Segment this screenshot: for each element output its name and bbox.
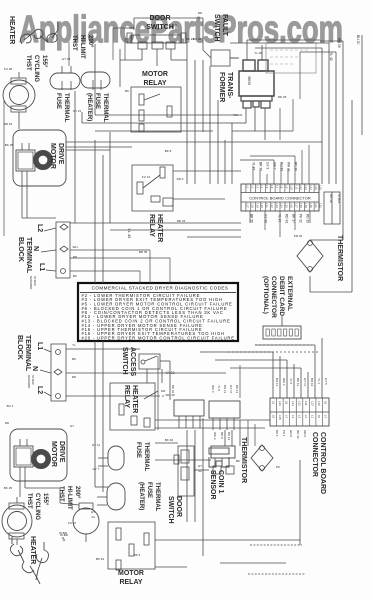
svg-text:THERMAL: THERMAL (143, 442, 149, 472)
wire (187, 236, 241, 238)
svg-text:L23: L23 (275, 203, 279, 208)
wire (328, 43, 330, 184)
wire (292, 99, 294, 131)
wire (155, 566, 187, 568)
svg-text:MOTOR: MOTOR (118, 570, 144, 577)
svg-text:(HEATER): (HEATER) (86, 93, 92, 121)
wire (194, 430, 196, 522)
svg-text:GY: GY (198, 464, 202, 468)
svg-text:YL: YL (72, 343, 76, 347)
svg-text:W-BR: W-BR (60, 533, 69, 537)
svg-text:200°: 200° (87, 35, 93, 48)
wire (231, 123, 233, 184)
wire (94, 44, 96, 115)
coin 1 sensor (lower) (209, 448, 229, 454)
wire (22, 217, 56, 219)
svg-text:L3: L3 (298, 415, 302, 419)
wire (247, 420, 249, 446)
svg-text:L1: L1 (38, 263, 45, 271)
svg-text:BK: BK (72, 357, 76, 361)
svg-text:CONNECTOR: CONNECTOR (311, 432, 318, 477)
svg-text:GR 8: GR 8 (289, 430, 293, 437)
wire (279, 211, 281, 237)
svg-text:GY 17: GY 17 (303, 378, 307, 387)
svg-text:WH 4: WH 4 (282, 378, 286, 386)
svg-text:L2: L2 (304, 415, 308, 419)
wire (3, 112, 5, 236)
door switch (lower) (178, 446, 194, 496)
svg-text:WH: WH (73, 245, 78, 249)
wire (94, 341, 96, 487)
thermal fuse heater (lower) (107, 483, 125, 510)
svg-text:RD 42: RD 42 (296, 430, 300, 439)
wire (169, 361, 171, 400)
svg-text:BK 40: BK 40 (165, 438, 174, 442)
svg-text:GY 3: GY 3 (266, 162, 270, 169)
svg-text:BU 30: BU 30 (356, 35, 360, 45)
wire (308, 145, 310, 184)
svg-text:SWITCH: SWITCH (146, 24, 174, 31)
svg-text:BK 10: BK 10 (171, 385, 175, 394)
svg-text:BK 13: BK 13 (235, 385, 239, 394)
svg-text:BK 1: BK 1 (275, 430, 279, 437)
wire (66, 348, 140, 350)
svg-text:L13: L13 (311, 401, 315, 406)
svg-text:GY 33: GY 33 (62, 57, 71, 61)
svg-text:HI-LIMIT: HI-LIMIT (66, 486, 72, 510)
svg-text:L5: L5 (272, 415, 276, 419)
wire (95, 114, 239, 116)
svg-text:L18: L18 (250, 203, 254, 208)
svg-text:SWITCH: SWITCH (213, 14, 220, 42)
svg-text:L12: L12 (299, 185, 303, 190)
svg-text:DOOR: DOOR (175, 496, 182, 517)
svg-text:L25: L25 (285, 203, 289, 208)
wire (300, 368, 302, 398)
svg-text:THST: THST (58, 486, 64, 502)
svg-text:YL 49: YL 49 (278, 214, 282, 222)
svg-text:11: 11 (62, 538, 65, 542)
svg-text:DRIVE: DRIVE (58, 441, 65, 463)
svg-text:L10: L10 (289, 185, 293, 190)
svg-text:BLOCK: BLOCK (16, 335, 23, 360)
svg-text:BU 30: BU 30 (193, 37, 202, 41)
wire (310, 239, 343, 241)
svg-text:BR 23: BR 23 (4, 122, 13, 126)
svg-text:CYCLING: CYCLING (33, 55, 39, 82)
wire (169, 258, 171, 283)
wire (351, 100, 353, 292)
svg-text:RD 39: RD 39 (337, 38, 341, 48)
svg-text:L8: L8 (280, 185, 284, 188)
wire (155, 442, 178, 444)
svg-text:WH 41: WH 41 (287, 162, 291, 172)
connector box A (lower) (174, 400, 204, 416)
wire (149, 250, 151, 283)
wire (59, 488, 61, 503)
svg-text:L2: L2 (36, 386, 43, 394)
svg-text:L16: L16 (319, 185, 323, 190)
wire (239, 365, 241, 398)
svg-text:COIN 1: COIN 1 (217, 470, 224, 493)
svg-text:WH 4: WH 4 (211, 385, 215, 393)
svg-text:L28: L28 (299, 203, 303, 208)
wire (155, 427, 265, 429)
wire (220, 562, 286, 564)
wire (252, 166, 254, 184)
wire (139, 271, 141, 283)
wire (19, 481, 21, 497)
wire (200, 351, 273, 353)
wire (245, 108, 247, 123)
wire (230, 122, 246, 124)
svg-text:L5: L5 (265, 185, 269, 188)
svg-text:L0: L0 (317, 415, 321, 419)
svg-text:L1: L1 (246, 185, 250, 188)
svg-text:L12: L12 (298, 401, 302, 406)
wire (21, 186, 23, 218)
svg-text:RD 45: RD 45 (278, 95, 287, 99)
svg-text:THERMAL: THERMAL (102, 93, 108, 123)
svg-text:RELAY: RELAY (148, 214, 155, 237)
svg-text:L21: L21 (265, 203, 269, 208)
wire (272, 352, 274, 398)
wire (95, 486, 108, 488)
wire (230, 42, 329, 44)
svg-text:FORMER: FORMER (218, 72, 225, 102)
svg-text:FUSE: FUSE (55, 93, 61, 109)
wire (255, 344, 312, 346)
svg-text:L31: L31 (314, 203, 318, 208)
thermistor (lower) (251, 445, 273, 471)
connector box C (lower) (211, 446, 235, 458)
wire (230, 57, 239, 59)
control board connector (lower) (270, 398, 329, 426)
heater relay (upper) (132, 165, 173, 211)
svg-text:L6: L6 (270, 185, 274, 188)
svg-text:THERMAL: THERMAL (63, 93, 69, 123)
diagnostic codes box (78, 283, 238, 341)
wire (186, 42, 188, 184)
wire (261, 45, 263, 60)
wire (294, 156, 296, 184)
svg-text:GY 5: GY 5 (324, 378, 328, 385)
wire (155, 419, 270, 421)
wire (70, 270, 140, 272)
wire (255, 47, 322, 49)
svg-text:STRAP: STRAP (31, 375, 35, 385)
svg-text:L1: L1 (311, 415, 315, 419)
wire (70, 257, 170, 259)
svg-text:BK 13: BK 13 (296, 378, 300, 387)
svg-text:THERMISTOR: THERMISTOR (336, 235, 343, 281)
wire (279, 108, 281, 140)
svg-text:BLOCK: BLOCK (17, 237, 24, 262)
wire (300, 51, 336, 53)
svg-text:BU 2: BU 2 (7, 404, 14, 408)
drive motor (upper) (13, 130, 66, 186)
svg-text:FU 13: FU 13 (142, 175, 151, 179)
svg-text:L9: L9 (285, 185, 289, 188)
wire (209, 66, 211, 184)
wire (66, 149, 110, 151)
svg-text:(OPTIONAL): (OPTIONAL) (262, 276, 269, 314)
svg-text:L3: L3 (255, 185, 259, 188)
wire (202, 540, 204, 556)
svg-text:36528: 36528 (247, 76, 251, 85)
connector box B (lower) (209, 401, 240, 418)
svg-text:GR 7: GR 7 (273, 162, 277, 170)
svg-text:THST: THST (26, 493, 32, 509)
svg-text:FUSE: FUSE (135, 442, 141, 458)
svg-text:ACCESS: ACCESS (129, 347, 136, 377)
wire (155, 539, 300, 541)
svg-text:SWITCH: SWITCH (121, 347, 128, 375)
svg-text:N: N (31, 366, 38, 371)
svg-text:L9: L9 (324, 401, 328, 405)
svg-text:HEATER: HEATER (156, 214, 163, 242)
svg-text:RD 39: RD 39 (329, 194, 333, 203)
wire (94, 140, 96, 283)
wire (249, 211, 251, 223)
svg-text:CONTROL BOARD CONNECTOR: CONTROL BOARD CONNECTOR (249, 196, 311, 201)
wire (66, 146, 132, 148)
wire (259, 170, 261, 184)
svg-text:DOOR: DOOR (150, 15, 171, 22)
wire (310, 291, 352, 293)
svg-text:FUSE: FUSE (146, 482, 152, 498)
wire (173, 198, 225, 200)
wire (74, 91, 76, 223)
svg-text:L7: L7 (324, 415, 328, 419)
svg-text:L27: L27 (294, 203, 298, 208)
svg-text:L7: L7 (275, 185, 279, 188)
svg-text:GY 7: GY 7 (93, 467, 100, 471)
svg-text:THST: THST (25, 55, 31, 71)
wire (202, 60, 204, 132)
wire (146, 369, 148, 383)
svg-text:GY: GY (70, 424, 74, 428)
svg-text:L14: L14 (291, 401, 295, 406)
svg-text:FAULT: FAULT (221, 14, 228, 37)
svg-text:THERMAL: THERMAL (154, 482, 160, 512)
svg-text:GY 21: GY 21 (73, 109, 82, 113)
thermal fuse (lower) (108, 446, 124, 470)
wire (70, 222, 241, 224)
wire (231, 430, 233, 446)
svg-text:L20: L20 (260, 203, 264, 208)
wire (264, 108, 266, 140)
svg-text:L13: L13 (304, 185, 308, 190)
svg-text:BU 11: BU 11 (275, 378, 279, 386)
svg-text:L4: L4 (291, 415, 295, 419)
wire (70, 249, 150, 251)
thermal fuse heater (upper) (81, 72, 110, 88)
wire (155, 459, 211, 461)
svg-text:YL 5: YL 5 (289, 378, 293, 384)
svg-text:L22: L22 (270, 203, 274, 208)
control board connector (upper) (241, 184, 319, 211)
svg-text:BK 25: BK 25 (4, 486, 13, 490)
svg-text:L26: L26 (289, 203, 293, 208)
wire (194, 60, 196, 184)
svg-text:TERMINAL: TERMINAL (24, 335, 31, 372)
wire (247, 39, 320, 41)
wire (24, 481, 26, 488)
wire (246, 40, 248, 60)
wire (273, 160, 275, 184)
svg-text:L2: L2 (250, 185, 254, 188)
wire (66, 395, 160, 397)
wire (281, 316, 283, 326)
wire (250, 155, 295, 157)
svg-text:BR 36: BR 36 (259, 162, 263, 171)
svg-text:GY 36: GY 36 (264, 214, 268, 223)
wire (224, 430, 226, 446)
svg-text:YL 45: YL 45 (252, 162, 256, 170)
wire (186, 430, 188, 522)
svg-text:PK: PK (276, 465, 280, 469)
svg-text:HEATER: HEATER (29, 536, 36, 564)
cycling thermostat 155 (upper) (3, 80, 35, 110)
svg-text:RD 39: RD 39 (306, 214, 310, 223)
wire (157, 356, 159, 430)
heater (upper) coils (20, 29, 48, 44)
svg-text:FU 28: FU 28 (4, 67, 13, 71)
cycling thermostat 155 (lower) (2, 505, 32, 537)
svg-text:L24: L24 (280, 203, 284, 208)
svg-text:BK 8: BK 8 (165, 149, 172, 153)
svg-text:RD 42: RD 42 (177, 219, 186, 223)
svg-text:WH 2: WH 2 (213, 432, 217, 440)
svg-text:BK 6: BK 6 (134, 553, 141, 557)
svg-text:MOTOR: MOTOR (142, 71, 168, 78)
svg-text:BK 43: BK 43 (96, 557, 105, 561)
svg-text:RD 43: RD 43 (285, 214, 289, 223)
svg-text:L32: L32 (319, 203, 323, 208)
wire (161, 369, 163, 383)
svg-text:155°: 155° (41, 55, 47, 68)
wire (335, 52, 337, 184)
wire (294, 211, 296, 230)
thermistor (upper) (297, 240, 323, 272)
svg-text:HEATER: HEATER (131, 385, 138, 413)
wire (248, 573, 305, 575)
wire (217, 100, 219, 184)
svg-text:THST: THST (71, 35, 77, 51)
svg-text:GY: GY (91, 510, 95, 514)
wire (279, 356, 281, 398)
svg-text:BK 25: BK 25 (5, 143, 14, 147)
svg-text:MOTOR: MOTOR (49, 143, 56, 169)
svg-text:BR 10: BR 10 (310, 378, 314, 387)
wire (202, 418, 204, 540)
svg-text:L19: L19 (255, 203, 259, 208)
svg-text:BU 33: BU 33 (280, 162, 284, 171)
wire (102, 341, 104, 492)
svg-text:PR 32: PR 32 (294, 234, 303, 238)
svg-text:YL 42: YL 42 (329, 52, 333, 61)
wire (301, 150, 303, 184)
wire (240, 159, 274, 161)
svg-text:TRANS-: TRANS- (226, 72, 233, 99)
wire (309, 211, 311, 223)
svg-text:GY 11: GY 11 (92, 443, 101, 447)
svg-text:RELAY: RELAY (143, 80, 166, 87)
svg-text:BK: BK (73, 274, 77, 278)
wire (25, 487, 60, 489)
wire (224, 140, 226, 184)
svg-text:RELAY: RELAY (119, 579, 142, 586)
svg-text:PK 32: PK 32 (299, 214, 303, 223)
svg-text:N: N (32, 246, 39, 251)
svg-text:BK: BK (125, 89, 129, 93)
svg-text:24: 24 (91, 515, 95, 519)
wire (250, 544, 302, 546)
svg-text:STRAP: STRAP (33, 276, 37, 286)
wire (82, 122, 230, 124)
svg-text:L10: L10 (317, 401, 321, 406)
svg-text:155°: 155° (42, 493, 48, 506)
svg-text:FU 22: FU 22 (68, 521, 77, 525)
wire (60, 503, 79, 505)
svg-text:YL 5: YL 5 (217, 385, 221, 391)
wire (95, 130, 213, 132)
wire (102, 155, 104, 283)
wire (286, 360, 288, 398)
connector aux box (upper) (324, 192, 340, 224)
wire (314, 345, 316, 398)
wire (26, 186, 28, 218)
svg-text:GROUND: GROUND (27, 375, 31, 389)
svg-text:OR 6: OR 6 (303, 430, 307, 437)
svg-text:HI-LIMIT: HI-LIMIT (79, 35, 85, 59)
wire (109, 132, 111, 223)
svg-text:BK 13: BK 13 (227, 432, 231, 441)
wire (173, 170, 241, 172)
svg-text:AppliancePartsPros.com: AppliancePartsPros.com (19, 9, 343, 51)
wire (321, 338, 323, 398)
motor relay (lower) (108, 522, 155, 569)
svg-text:CONTROL BOARD: CONTROL BOARD (319, 432, 326, 494)
svg-text:YL 3: YL 3 (317, 378, 321, 384)
wire (299, 52, 301, 99)
svg-text:L6: L6 (272, 401, 276, 405)
svg-text:L15: L15 (314, 185, 318, 190)
svg-text:YL 49: YL 49 (254, 51, 262, 55)
svg-text:L11: L11 (304, 401, 308, 406)
wire (194, 469, 209, 471)
wire (110, 229, 241, 231)
wire (342, 41, 344, 240)
svg-text:L2: L2 (36, 224, 43, 232)
wire (239, 420, 241, 446)
heater feed wires (upper) (68, 42, 70, 66)
wire (119, 49, 121, 87)
svg-text:RD 8: RD 8 (220, 432, 224, 439)
svg-text:SENSOR: SENSOR (209, 470, 216, 500)
svg-text:L4: L4 (260, 185, 264, 188)
svg-text:SWITCH: SWITCH (167, 496, 174, 524)
wire (254, 424, 256, 446)
svg-text:L30: L30 (309, 203, 313, 208)
svg-text:EXTERNAL: EXTERNAL (286, 276, 293, 311)
wire (293, 364, 295, 398)
wire (255, 344, 315, 346)
wire (307, 372, 309, 398)
svg-text:STR21: STR21 (337, 194, 341, 204)
svg-text:L17: L17 (246, 203, 250, 208)
